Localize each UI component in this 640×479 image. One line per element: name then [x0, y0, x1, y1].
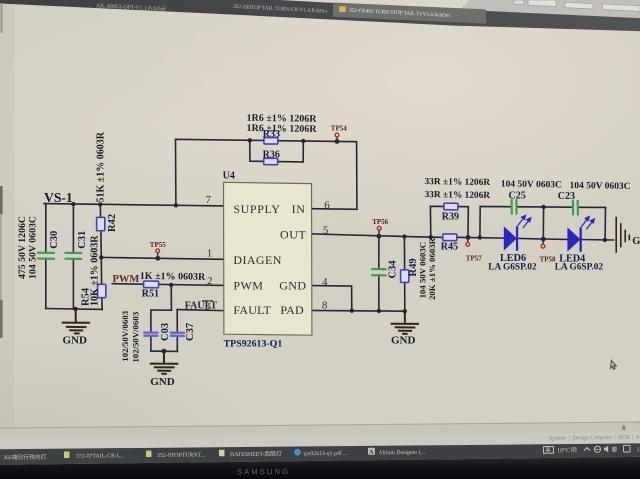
- TOPBAR: [0, 0, 640, 338]
- svg-text:4: 4: [322, 276, 328, 288]
- svg-text:104 50V 0603C: 104 50V 0603C: [417, 242, 427, 299]
- svg-text:GND: GND: [63, 335, 88, 347]
- net label FAULT: [185, 300, 218, 311]
- wire pin 2 PWM left: [112, 283, 143, 286]
- taskbar item 3: [146, 450, 206, 459]
- svg-text:SAMSUNG: SAMSUNG: [237, 467, 290, 476]
- svg-text:102/50V/0603: 102/50V/0603: [131, 311, 141, 362]
- svg-text:7: 7: [206, 194, 212, 206]
- wire pin 4 GND: [312, 286, 352, 311]
- node R49 bottom: [403, 309, 407, 313]
- resistor R54: [98, 284, 106, 297]
- svg-text:GND: GND: [391, 335, 416, 347]
- svg-text:tps92613-q1.pdf ...: tps92613-q1.pdf ...: [303, 450, 348, 457]
- svg-text:R51: R51: [142, 289, 159, 300]
- svg-text:10K ±1% 0603R: 10K ±1% 0603R: [90, 235, 101, 306]
- wire branch up to R33 row: [176, 139, 250, 205]
- wire pin2 junction drop to C03: [151, 285, 172, 332]
- node R49 top: [402, 234, 406, 238]
- test point TP57: [466, 237, 470, 246]
- ground GND right (under C34 R49): [392, 311, 418, 334]
- wire bottom-left gnd rail: [46, 308, 102, 311]
- svg-text:GND: GND: [279, 279, 306, 293]
- IC U4 TPS92613-Q1 body: [224, 182, 312, 335]
- wire R33 row right to TP54 and down to pin 6: [278, 141, 357, 210]
- capacitor C25 (horizontal): [512, 200, 517, 213]
- resistor R33: [264, 138, 278, 145]
- wire R42 chain: [99, 204, 101, 217]
- resistor R49: [401, 270, 409, 283]
- svg-text:C37: C37: [185, 323, 196, 341]
- svg-text:C31: C31: [77, 231, 88, 249]
- capacitor C03: [145, 333, 158, 336]
- capacitor C31: [66, 253, 82, 259]
- node LED4 cathode: [603, 238, 607, 242]
- node R39 branch left: [429, 235, 433, 239]
- svg-text:R45: R45: [441, 241, 458, 252]
- capacitor C34: [372, 269, 385, 275]
- svg-text:C30: C30: [49, 231, 60, 249]
- active tab icon: [339, 6, 346, 13]
- wire LED6 cathode to LED4: [517, 237, 543, 240]
- svg-text:TP57: TP57: [466, 255, 482, 263]
- wire C23 branch: [544, 206, 572, 208]
- svg-text:475 50V 1206C: 475 50V 1206C: [17, 216, 28, 279]
- node R33 branch: [174, 203, 178, 207]
- node C03 C37 rail: [162, 349, 167, 354]
- wire C31 drop: [72, 204, 74, 252]
- svg-text:1K ±1% 0603R: 1K ±1% 0603R: [140, 271, 206, 283]
- svg-text:C25: C25: [509, 191, 526, 202]
- svg-text:英: 英: [545, 446, 551, 454]
- ground GND middle (under C03 C37): [151, 351, 177, 374]
- taskbar item 5 pdf: [294, 448, 348, 457]
- capacitor C37: [171, 333, 184, 336]
- monitor bezel: [0, 457, 640, 479]
- wire R36 loop: [250, 140, 264, 161]
- taskbar: [0, 443, 640, 465]
- node C25 C23 top: [541, 205, 545, 209]
- svg-text:要: 要: [611, 446, 617, 453]
- node R39 branch right TP57: [466, 235, 471, 240]
- test point TP55: [156, 249, 160, 258]
- svg-text:PAD: PAD: [280, 303, 304, 317]
- svg-text:1: 1: [207, 247, 213, 259]
- capacitor C30: [38, 253, 54, 259]
- ground GND left (under C30 C31 R54): [63, 309, 89, 334]
- svg-text:A: A: [369, 450, 374, 456]
- svg-text:TP56: TP56: [372, 218, 388, 226]
- svg-text:TPS92613-Q1: TPS92613-Q1: [224, 338, 283, 349]
- svg-text:2: 2: [637, 447, 640, 453]
- svg-text:C03: C03: [160, 323, 171, 341]
- svg-text:3: 3: [205, 300, 211, 312]
- resistor R51: [144, 281, 159, 288]
- taskbar item 4: [219, 449, 282, 458]
- svg-text:R33: R33: [263, 129, 280, 140]
- wire pin 1 DIAGEN: [101, 257, 223, 259]
- mouse cursor main: [611, 360, 617, 369]
- svg-text:104 50V 0603C: 104 50V 0603C: [569, 181, 630, 192]
- resistor R42: [97, 217, 105, 230]
- node R42-R54: [99, 255, 103, 259]
- node R51 right: [169, 283, 173, 287]
- wire C37 drop: [176, 310, 178, 332]
- svg-text:VS-1: VS-1: [44, 190, 73, 205]
- wire C34 drop: [378, 236, 380, 268]
- taskbar item 2: [64, 451, 125, 460]
- svg-text:6: 6: [324, 199, 330, 211]
- node R33 left: [248, 138, 252, 142]
- LED4 arrows: [582, 217, 595, 229]
- resistor R36: [264, 158, 278, 165]
- svg-text:DIAGEN: DIAGEN: [233, 253, 281, 267]
- svg-text:20K ±1% 0603R: 20K ±1% 0603R: [427, 237, 437, 300]
- node pin4 pin8: [350, 309, 354, 313]
- resistor R39: [444, 203, 458, 210]
- test point TP56: [377, 226, 381, 236]
- svg-text:352-STOPTURNT...: 352-STOPTURNT...: [157, 452, 206, 458]
- svg-text:8: 8: [322, 299, 328, 311]
- svg-text:LA G6SP.02: LA G6SP.02: [488, 263, 537, 273]
- svg-text:33R ±1% 1206R: 33R ±1% 1206R: [424, 190, 490, 201]
- node TP55: [155, 256, 160, 261]
- svg-text:10°C: 10°C: [557, 447, 570, 454]
- toolbar widget box 3: [565, 2, 594, 9]
- wire R33 row left: [250, 139, 264, 141]
- svg-text:TP55: TP55: [150, 241, 166, 249]
- wire bottom rail C03 C37: [151, 350, 177, 352]
- wire C03 bottom: [150, 337, 152, 352]
- svg-text:C23: C23: [558, 191, 575, 202]
- svg-text:372-07TAIL-CR-L...: 372-07TAIL-CR-L...: [76, 453, 125, 459]
- svg-text:IN: IN: [292, 202, 306, 216]
- tab separator 1: [163, 5, 166, 11]
- svg-text:104 50V 0603C: 104 50V 0603C: [501, 180, 562, 191]
- node TP58 LED4 anode: [541, 237, 546, 242]
- svg-text:FAULT: FAULT: [233, 303, 271, 317]
- toolbar light strip top right: [460, 0, 640, 18]
- wire pin 3 FAULT: [177, 310, 223, 311]
- node C25 branch left: [478, 235, 482, 239]
- svg-text:System | Design Compiler |: System | Design Compiler | SCH | Instru: [549, 434, 640, 441]
- BOTTOM BARS: [0, 422, 640, 479]
- LED6 diode: [504, 226, 518, 251]
- toolbar widget box 2: [528, 0, 556, 7]
- resistor R45: [443, 234, 457, 241]
- svg-text:104 50V 0603C: 104 50V 0603C: [28, 216, 39, 279]
- svg-text:C34: C34: [388, 260, 399, 279]
- wire R54 chain: [100, 257, 102, 284]
- wire R45 main left: [431, 236, 443, 238]
- node R42 top: [98, 202, 102, 206]
- dark tab band: [0, 0, 640, 31]
- svg-text:SUPPLY: SUPPLY: [233, 202, 280, 216]
- toolbar widget box 4: [602, 4, 640, 11]
- wire C30 drop: [45, 204, 47, 252]
- svg-text:PWM: PWM: [113, 274, 140, 285]
- svg-text:阴: 阴: [571, 446, 577, 454]
- svg-text:TP58: TP58: [540, 256, 556, 264]
- svg-text:LA G6SP.02: LA G6SP.02: [555, 263, 604, 273]
- taskbar tray: [543, 445, 639, 454]
- svg-text:102/50V/0603: 102/50V/0603: [120, 310, 130, 361]
- svg-text:Altium Designer (...: Altium Designer (...: [378, 449, 425, 456]
- toolbar widget box 1: [514, 0, 524, 5]
- wire pin 8 PAD rail: [312, 309, 405, 312]
- mouse cursor small (bottom right): [621, 425, 626, 431]
- svg-text:R39: R39: [442, 212, 459, 223]
- wire C25 branch: [480, 206, 511, 237]
- svg-text:2: 2: [207, 275, 213, 287]
- svg-text:51K ±1% 0603R: 51K ±1% 0603R: [96, 131, 107, 202]
- wire R45 to LED6: [457, 236, 504, 239]
- svg-text:R42: R42: [107, 214, 118, 232]
- LED6 arrows: [518, 215, 531, 227]
- test point TP54: [335, 133, 339, 141]
- svg-text:U4: U4: [223, 171, 235, 182]
- node C30 top: [71, 202, 75, 206]
- wire pin 2 R51 to IC: [159, 284, 223, 285]
- svg-text:1R6 ±1% 1206R: 1R6 ±1% 1206R: [246, 123, 317, 135]
- capacitor C23 (horizontal): [573, 201, 578, 214]
- wire R49 drop: [403, 237, 405, 270]
- wire pin 5 OUT rail: [312, 234, 431, 237]
- taskbar item 6 altium: [368, 447, 426, 456]
- node TP56: [377, 234, 382, 239]
- svg-text:R36: R36: [263, 150, 280, 161]
- svg-text:GND: GND: [150, 376, 175, 388]
- svg-text:OUT: OUT: [280, 228, 307, 242]
- test point TP58: [541, 239, 545, 248]
- svg-text:GND: GND: [632, 236, 640, 247]
- status bar: [0, 432, 640, 449]
- active tab: [333, 3, 486, 24]
- ground earth right edge (after LED4): [616, 218, 629, 253]
- left bezel reflection marks: [0, 186, 3, 214]
- LED4 diode: [567, 227, 581, 252]
- wire R39 branch: [430, 206, 444, 237]
- left panel edge: [1, 3, 3, 33]
- node R33 right: [301, 139, 305, 143]
- wire VS-1 top rail to pin 7: [44, 204, 223, 206]
- scrollbar band: [0, 422, 640, 439]
- svg-text:33R ±1% 1206R: 33R ±1% 1206R: [424, 177, 490, 188]
- wire LED4 cathode to earth: [579, 239, 614, 242]
- svg-text:5: 5: [323, 224, 329, 236]
- node C34 bottom: [377, 309, 381, 313]
- node TP54: [335, 139, 340, 144]
- svg-text:TP54: TP54: [331, 125, 347, 133]
- svg-text:PWM: PWM: [233, 279, 263, 293]
- node gnd left rail: [73, 307, 77, 311]
- svg-text:FAULT: FAULT: [185, 300, 218, 311]
